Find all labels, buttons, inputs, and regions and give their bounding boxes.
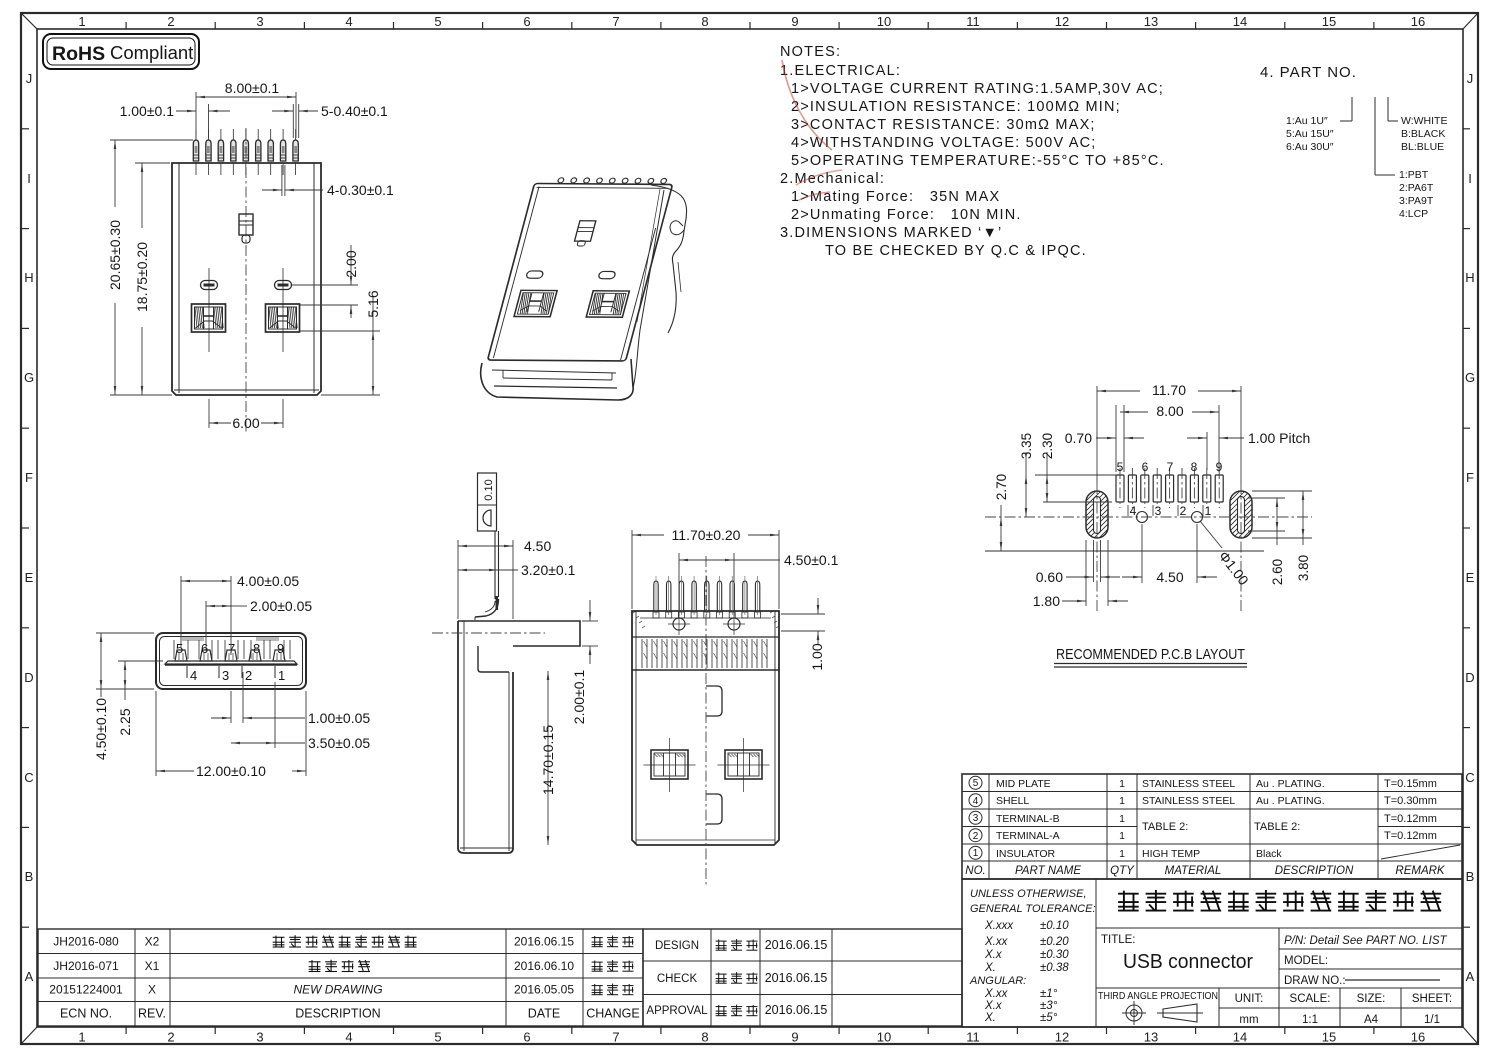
svg-text:A: A — [1466, 969, 1475, 984]
svg-text:QTY: QTY — [1110, 865, 1135, 877]
svg-text:Au . PLATING.: Au . PLATING. — [1256, 795, 1325, 807]
svg-text:11.70±0.20: 11.70±0.20 — [672, 527, 741, 543]
svg-text:16: 16 — [1411, 14, 1425, 29]
svg-text:C: C — [1465, 770, 1474, 785]
svg-text:INSULATOR: INSULATOR — [996, 848, 1056, 860]
tolerance block — [962, 879, 1462, 1027]
svg-text:2016.06.15: 2016.06.15 — [765, 971, 828, 985]
dim 2.70 — [1000, 505, 1002, 551]
svg-text:20.65±0.30: 20.65±0.30 — [107, 220, 123, 290]
svg-text:±0.10: ±0.10 — [1040, 920, 1069, 932]
svg-text:REMARK: REMARK — [1395, 865, 1446, 877]
dim 2.00±0.05 — [205, 601, 207, 650]
iso mounting hook — [651, 185, 687, 333]
svg-text:W:WHITE: W:WHITE — [1401, 115, 1447, 127]
svg-text:2>INSULATION RESISTANCE: 100MΩ: 2>INSULATION RESISTANCE: 100MΩ MIN; — [791, 99, 1121, 115]
dim 12.00±0.10 — [155, 691, 157, 776]
svg-text:2: 2 — [1180, 504, 1187, 518]
dim 5-0.40±0.1 — [292, 104, 294, 138]
svg-text:±0.20: ±0.20 — [1040, 936, 1069, 948]
svg-text:4.50: 4.50 — [1156, 569, 1183, 585]
dim 4.00±0.05 — [180, 576, 182, 648]
svg-text:15: 15 — [1322, 1030, 1336, 1045]
svg-text:JH2016-080: JH2016-080 — [53, 935, 119, 949]
svg-text:5: 5 — [973, 778, 979, 789]
svg-text:4: 4 — [1130, 504, 1137, 518]
svg-text:UNLESS OTHERWISE,: UNLESS OTHERWISE, — [970, 888, 1087, 900]
svg-text:GENERAL TOLERANCE:: GENERAL TOLERANCE: — [970, 903, 1096, 915]
svg-text:X2: X2 — [145, 935, 160, 949]
svg-text:5: 5 — [434, 14, 441, 29]
svg-text:X.: X. — [984, 962, 996, 974]
svg-text:B: B — [25, 869, 34, 884]
svg-text:THIRD ANGLE PROJECTION: THIRD ANGLE PROJECTION — [1098, 991, 1218, 1002]
svg-text:MATERIAL: MATERIAL — [1165, 865, 1222, 877]
RoHS Compliant badge — [43, 34, 199, 69]
svg-text:3.20±0.1: 3.20±0.1 — [521, 562, 576, 578]
svg-text:3.35: 3.35 — [1019, 433, 1034, 459]
company name (CJK strokes) — [1118, 891, 1139, 911]
svg-text:NOTES:: NOTES: — [780, 44, 841, 60]
view: rear view — [632, 611, 779, 845]
svg-text:10: 10 — [877, 1030, 891, 1045]
svg-text:7: 7 — [228, 641, 235, 656]
svg-text:A4: A4 — [1364, 1014, 1379, 1026]
svg-text:I: I — [1468, 171, 1472, 186]
svg-text:ECN NO.: ECN NO. — [60, 1007, 112, 1021]
svg-text:6: 6 — [523, 14, 530, 29]
svg-text:SHEET:: SHEET: — [1412, 993, 1452, 1005]
svg-text:5-0.40±0.1: 5-0.40±0.1 — [321, 103, 388, 119]
svg-text:8: 8 — [1191, 460, 1198, 474]
svg-text:HIGH TEMP: HIGH TEMP — [1142, 848, 1200, 860]
svg-text:DESCRIPTION: DESCRIPTION — [1275, 865, 1354, 877]
svg-text:12.00±0.10: 12.00±0.10 — [196, 763, 266, 779]
svg-text:2.30: 2.30 — [1040, 433, 1055, 459]
svg-text:Black: Black — [1256, 848, 1282, 860]
svg-text:1: 1 — [1119, 830, 1125, 842]
svg-text:SCALE:: SCALE: — [1290, 993, 1331, 1005]
svg-text:8.00±0.1: 8.00±0.1 — [225, 80, 280, 96]
svg-text:DESIGN: DESIGN — [655, 940, 699, 952]
svg-text:STAINLESS STEEL: STAINLESS STEEL — [1142, 778, 1235, 790]
svg-text:H: H — [1465, 270, 1474, 285]
svg-text:T=0.15mm: T=0.15mm — [1384, 778, 1437, 790]
svg-text:3: 3 — [973, 813, 979, 824]
svg-text:14: 14 — [1233, 14, 1247, 29]
iso shell bottom band — [481, 359, 633, 400]
dim 4.50±0.1 back — [678, 553, 680, 616]
revision history table — [38, 929, 643, 1026]
svg-text:Compliant: Compliant — [110, 42, 193, 63]
svg-text:2.00: 2.00 — [343, 250, 359, 277]
svg-text:2016.06.15: 2016.06.15 — [765, 938, 828, 952]
dim 6.00 — [208, 399, 210, 428]
svg-text:2.25: 2.25 — [117, 708, 133, 735]
svg-text:11.70: 11.70 — [1152, 382, 1186, 398]
title cells — [1278, 928, 1280, 988]
svg-text:1: 1 — [1119, 795, 1125, 807]
svg-text:I: I — [27, 171, 31, 186]
svg-text:14.70±0.15: 14.70±0.15 — [540, 725, 556, 795]
svg-text:6: 6 — [1142, 460, 1149, 474]
svg-text:3: 3 — [256, 1030, 263, 1045]
svg-text:D: D — [1465, 670, 1474, 685]
svg-text:G: G — [1465, 370, 1475, 385]
svg-text:B:BLACK: B:BLACK — [1401, 128, 1445, 140]
svg-text:3:PA9T: 3:PA9T — [1399, 195, 1434, 207]
svg-text:2016.06.15: 2016.06.15 — [514, 935, 574, 949]
svg-text:F: F — [25, 470, 33, 485]
svg-text:A: A — [25, 969, 34, 984]
dim 1.00 back — [781, 613, 825, 615]
svg-text:6: 6 — [201, 641, 208, 656]
svg-text:12: 12 — [1055, 14, 1069, 29]
svg-text:TABLE 2:: TABLE 2: — [1254, 821, 1300, 833]
svg-text:4. PART NO.: 4. PART NO. — [1260, 64, 1357, 81]
svg-text:4.50: 4.50 — [524, 538, 551, 554]
svg-text:X.xx: X.xx — [984, 936, 1009, 948]
view: mating face view — [156, 633, 306, 689]
dim phi 1.00 leader — [1200, 521, 1222, 548]
svg-text:4.00±0.05: 4.00±0.05 — [237, 573, 299, 589]
view: connector top plan view — [172, 163, 321, 395]
svg-text:1.00 Pitch: 1.00 Pitch — [1248, 430, 1310, 446]
svg-text:0.10: 0.10 — [483, 479, 495, 500]
svg-text:RECOMMENDED P.C.B LAYOUT: RECOMMENDED P.C.B LAYOUT — [1056, 647, 1245, 663]
svg-text:1.80: 1.80 — [1033, 593, 1060, 609]
svg-text:CHECK: CHECK — [657, 973, 698, 985]
svg-text:1.ELECTRICAL:: 1.ELECTRICAL: — [780, 63, 901, 79]
svg-text:2.Mechanical:: 2.Mechanical: — [780, 171, 885, 187]
svg-text:4>WITHSTANDING VOLTAGE: 500V A: 4>WITHSTANDING VOLTAGE: 500V AC; — [791, 135, 1097, 151]
svg-text:5: 5 — [434, 1030, 441, 1045]
svg-text:5: 5 — [176, 641, 183, 656]
svg-text:9: 9 — [791, 14, 798, 29]
svg-text:4.50±0.10: 4.50±0.10 — [93, 698, 109, 760]
dim 3.80 — [1252, 490, 1312, 492]
svg-text:13: 13 — [1144, 1030, 1158, 1045]
svg-text:MID PLATE: MID PLATE — [996, 778, 1051, 790]
svg-text:TERMINAL-A: TERMINAL-A — [996, 830, 1060, 842]
svg-text:5: 5 — [1117, 460, 1124, 474]
svg-text:PART NAME: PART NAME — [1015, 865, 1081, 877]
svg-text:TERMINAL-B: TERMINAL-B — [996, 813, 1060, 825]
dim 18.75±0.20 — [135, 162, 170, 164]
svg-text:2.60: 2.60 — [1270, 559, 1285, 585]
svg-text:2>Unmating Force: 10N MIN.: 2>Unmating Force: 10N MIN. — [791, 207, 1022, 223]
iso right side wall — [633, 190, 664, 388]
dim 2.00±0.1 side — [582, 620, 598, 622]
svg-text:4.50±0.1: 4.50±0.1 — [784, 552, 839, 568]
dim 2.60 — [1248, 497, 1285, 499]
dim 4-0.30±0.1 — [281, 165, 283, 196]
svg-text:3: 3 — [256, 14, 263, 29]
svg-text:2: 2 — [973, 831, 979, 842]
svg-text:8: 8 — [701, 14, 708, 29]
svg-text:7: 7 — [612, 14, 619, 29]
svg-text:15: 15 — [1322, 14, 1336, 29]
design/check/approval table — [643, 929, 962, 1026]
svg-text:±0.38: ±0.38 — [1040, 962, 1069, 974]
svg-text:T=0.12mm: T=0.12mm — [1384, 813, 1437, 825]
svg-text:X.x: X.x — [984, 1000, 1003, 1012]
svg-text:STAINLESS STEEL: STAINLESS STEEL — [1142, 795, 1235, 807]
svg-text:18.75±0.20: 18.75±0.20 — [134, 242, 150, 312]
svg-text:3>CONTACT RESISTANCE: 30mΩ MAX: 3>CONTACT RESISTANCE: 30mΩ MAX; — [791, 117, 1096, 133]
svg-text:11: 11 — [966, 14, 980, 29]
svg-text:5>OPERATING TEMPERATURE:-55°C: 5>OPERATING TEMPERATURE:-55°C TO +85°C. — [791, 153, 1165, 169]
dim 4.50±0.10 face — [96, 632, 154, 634]
svg-text:J: J — [1467, 71, 1474, 86]
svg-text:4: 4 — [345, 1030, 352, 1045]
dim 8.00 pcb — [1115, 405, 1117, 472]
svg-text:1/1: 1/1 — [1424, 1014, 1440, 1026]
dim 1.00±0.05 — [230, 691, 232, 723]
svg-text:X.xxx: X.xxx — [984, 920, 1014, 932]
svg-text:MODEL:: MODEL: — [1284, 955, 1328, 967]
svg-text:X1: X1 — [145, 959, 160, 973]
svg-text:Au . PLATING.: Au . PLATING. — [1256, 778, 1325, 790]
svg-text:8: 8 — [253, 641, 260, 656]
svg-text:5:Au 15U″: 5:Au 15U″ — [1286, 128, 1334, 140]
svg-text:D: D — [24, 670, 33, 685]
svg-text:2: 2 — [167, 1030, 174, 1045]
svg-text:6.00: 6.00 — [232, 415, 259, 431]
svg-text:1: 1 — [973, 848, 979, 859]
dim 5.16 — [300, 330, 380, 332]
view: recommended PCB layout — [1116, 475, 1124, 502]
dim 11.70 pcb — [1096, 386, 1098, 483]
svg-text:1:1: 1:1 — [1302, 1014, 1318, 1026]
dim 2.25 — [118, 660, 163, 662]
svg-text:1: 1 — [78, 14, 85, 29]
svg-text:BL:BLUE: BL:BLUE — [1401, 141, 1444, 153]
svg-text:mm: mm — [1239, 1014, 1258, 1026]
svg-text:3.50±0.05: 3.50±0.05 — [308, 735, 370, 751]
svg-text:16: 16 — [1411, 1030, 1425, 1045]
svg-text:P/N: Detail See PART NO. LIST: P/N: Detail See PART NO. LIST — [1284, 935, 1448, 947]
svg-text:4: 4 — [973, 796, 979, 807]
svg-text:9: 9 — [791, 1030, 798, 1045]
svg-text:3.80: 3.80 — [1296, 555, 1311, 581]
svg-text:11: 11 — [966, 1030, 980, 1045]
svg-text:SIZE:: SIZE: — [1357, 993, 1386, 1005]
svg-text:G: G — [24, 370, 34, 385]
svg-text:TO BE CHECKED BY Q.C & IPQC.: TO BE CHECKED BY Q.C & IPQC. — [825, 243, 1087, 259]
svg-text:B: B — [1466, 869, 1475, 884]
svg-text:3.DIMENSIONS MARKED ‘▼’: 3.DIMENSIONS MARKED ‘▼’ — [780, 225, 1002, 241]
svg-text:1: 1 — [78, 1030, 85, 1045]
svg-text:F: F — [1466, 470, 1474, 485]
svg-text:0.70: 0.70 — [1065, 430, 1092, 446]
svg-text:3: 3 — [1155, 504, 1162, 518]
svg-text:1:PBT: 1:PBT — [1399, 169, 1429, 181]
svg-text:RoHS: RoHS — [52, 43, 105, 65]
view: side profile — [478, 473, 497, 531]
svg-text:E: E — [25, 570, 34, 585]
svg-text:T=0.30mm: T=0.30mm — [1384, 795, 1437, 807]
svg-text:7: 7 — [1167, 460, 1174, 474]
view: isometric 3D connector — [488, 178, 675, 361]
svg-text:20151224001: 20151224001 — [49, 983, 123, 997]
svg-text:4-0.30±0.1: 4-0.30±0.1 — [327, 182, 394, 198]
dim 14.70±0.15 — [547, 671, 549, 845]
svg-text:2: 2 — [167, 14, 174, 29]
svg-text:±3°: ±3° — [1040, 1000, 1058, 1012]
svg-text:UNIT:: UNIT: — [1235, 993, 1264, 1005]
svg-text:6: 6 — [523, 1030, 530, 1045]
svg-text:TABLE 2:: TABLE 2: — [1142, 821, 1188, 833]
dim 1.80 — [1085, 540, 1087, 606]
dim 11.70±0.20 — [631, 530, 633, 609]
svg-text:1: 1 — [1119, 848, 1125, 860]
dim 0.70 — [1096, 437, 1116, 439]
dim 3.35 — [1025, 452, 1027, 517]
dim 2.00 (oval to latch) — [292, 284, 358, 286]
svg-text:13: 13 — [1144, 14, 1158, 29]
svg-text:3: 3 — [222, 668, 229, 683]
svg-text:1: 1 — [1119, 778, 1125, 790]
svg-text:CHANGE: CHANGE — [586, 1007, 639, 1021]
svg-text:X.xx: X.xx — [984, 988, 1009, 1000]
svg-text:NO.: NO. — [965, 865, 985, 877]
svg-text:8: 8 — [701, 1030, 708, 1045]
svg-text:USB connector: USB connector — [1123, 951, 1253, 973]
svg-text:TITLE:: TITLE: — [1101, 934, 1136, 946]
dim 8.00±0.1 — [195, 92, 197, 138]
svg-text:1: 1 — [1205, 504, 1212, 518]
dim 2.30 — [1046, 452, 1048, 502]
svg-text:1:Au 1U″: 1:Au 1U″ — [1286, 115, 1328, 127]
parts list table — [962, 774, 1462, 879]
svg-text:APPROVAL: APPROVAL — [646, 1005, 708, 1017]
svg-text:14: 14 — [1233, 1030, 1247, 1045]
svg-text:2: 2 — [245, 668, 252, 683]
svg-text:5.16: 5.16 — [365, 290, 381, 317]
dim 1.00 Pitch — [1206, 432, 1208, 470]
svg-text:DATE: DATE — [528, 1007, 560, 1021]
svg-text:10: 10 — [877, 14, 891, 29]
svg-text:2.70: 2.70 — [994, 474, 1009, 500]
svg-text:6:Au 30U″: 6:Au 30U″ — [1286, 141, 1334, 153]
svg-text:1.00±0.05: 1.00±0.05 — [308, 710, 370, 726]
svg-text:1.00±0.1: 1.00±0.1 — [120, 103, 175, 119]
svg-text:C: C — [24, 770, 33, 785]
svg-text:T=0.12mm: T=0.12mm — [1384, 830, 1437, 842]
svg-text:1>VOLTAGE CURRENT RATING:1.5AM: 1>VOLTAGE CURRENT RATING:1.5AMP,30V AC; — [791, 81, 1164, 97]
svg-text:2016.05.05: 2016.05.05 — [514, 983, 574, 997]
svg-text:±5°: ±5° — [1040, 1012, 1058, 1024]
svg-text:±1°: ±1° — [1040, 988, 1058, 1000]
svg-text:4: 4 — [190, 668, 197, 683]
svg-text:2:PA6T: 2:PA6T — [1399, 182, 1434, 194]
svg-text:2.00±0.05: 2.00±0.05 — [250, 598, 312, 614]
svg-text:ANGULAR:: ANGULAR: — [969, 975, 1026, 987]
svg-text:X.x: X.x — [984, 949, 1003, 961]
svg-text:J: J — [26, 71, 33, 86]
svg-text:X: X — [148, 983, 156, 997]
svg-text:JH2016-071: JH2016-071 — [53, 959, 119, 973]
svg-text:±0.30: ±0.30 — [1040, 949, 1069, 961]
svg-text:4:LCP: 4:LCP — [1399, 208, 1428, 220]
svg-text:9: 9 — [277, 641, 284, 656]
svg-text:1>Mating Force: 35N MAX: 1>Mating Force: 35N MAX — [791, 189, 1000, 205]
svg-text:1: 1 — [278, 668, 285, 683]
svg-text:DRAW NO.:: DRAW NO.: — [1284, 975, 1346, 987]
dim 4.50 pcb — [1141, 524, 1143, 583]
dim 1.00±0.1 — [208, 104, 210, 138]
svg-text:REV.: REV. — [138, 1007, 166, 1021]
svg-text:2016.06.15: 2016.06.15 — [765, 1003, 828, 1017]
svg-text:0.60: 0.60 — [1036, 569, 1063, 585]
svg-text:E: E — [1466, 570, 1475, 585]
dim 20.65±0.30 — [110, 139, 193, 141]
svg-text:DESCRIPTION: DESCRIPTION — [295, 1007, 380, 1021]
dim 3.50±0.05 — [274, 682, 276, 748]
svg-text:2016.06.10: 2016.06.10 — [514, 959, 574, 973]
svg-text:1: 1 — [1119, 813, 1125, 825]
svg-text:X.: X. — [984, 1012, 996, 1024]
svg-text:7: 7 — [612, 1030, 619, 1045]
svg-text:12: 12 — [1055, 1030, 1069, 1045]
svg-text:8.00: 8.00 — [1156, 403, 1183, 419]
svg-text:4: 4 — [345, 14, 352, 29]
dim 4.50 side — [457, 540, 459, 619]
dim 0.60 — [1093, 540, 1095, 582]
svg-text:SHELL: SHELL — [996, 795, 1029, 807]
dim 3.20±0.1 — [458, 569, 498, 571]
svg-text:2.00±0.1: 2.00±0.1 — [571, 670, 587, 725]
svg-text:H: H — [24, 270, 33, 285]
svg-text:1.00: 1.00 — [809, 643, 825, 670]
svg-text:NEW DRAWING: NEW DRAWING — [293, 983, 382, 997]
